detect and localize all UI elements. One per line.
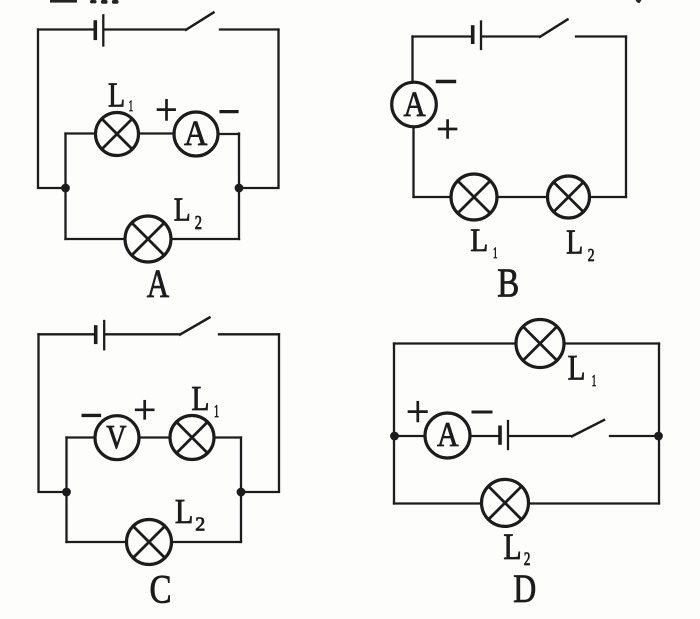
ammeter A1 circle (circuit D) [425,413,470,458]
polarity − of ammeter A1 [221,110,237,113]
wire: C top-left segment [39,333,95,335]
battery positive plate (circuit C) [103,321,105,349]
svg-text:L: L [568,347,586,387]
wire: B battery to switch [482,35,540,37]
svg-text:1: 1 [214,401,219,421]
wire: D node to ammeter [394,435,425,437]
wire: C battery to switch [105,333,180,335]
svg-text:L: L [566,224,583,262]
node junction left (circuit C) [62,488,71,497]
lamp L1 (circuit D) [516,320,564,368]
svg-text:A: A [404,84,427,124]
battery negative plate (circuit D) [498,427,502,443]
battery negative plate (circuit B) [471,27,475,42]
svg-text:L: L [175,492,194,531]
wire: B top-left segment [413,35,472,37]
node junction right (circuit C) [237,488,246,497]
wire: C inner left vertical [65,438,67,543]
wire: C lamp L2 to inner right vertical [172,541,242,543]
wire: D bottom branch left [394,502,482,504]
node junction right (circuit A) [235,184,244,193]
wire: A node to lamp L2 [66,238,126,240]
switch S (circuit B) [540,20,568,37]
wire: D right vertical [658,344,660,504]
ammeter A1 circle (circuit A) [174,112,218,156]
lamp L2 (circuit D) [482,479,529,526]
switch S (circuit A) [186,13,214,30]
svg-text:2: 2 [195,514,205,536]
svg-text:L: L [191,379,209,418]
svg-text:V: V [106,419,127,456]
wire: A inner right vertical [238,134,240,240]
wire: B switch to top-right corner [576,35,626,37]
switch S (circuit D) [572,420,604,436]
wire: A top-left segment [38,28,94,30]
wire: C inner right vertical [240,438,242,543]
lamp L2 (circuit A) [125,216,171,262]
svg-text:A: A [184,113,207,153]
svg-text:D: D [513,566,536,611]
wire: A right outer vertical down to node [239,30,279,189]
svg-text:L: L [470,223,488,259]
lamp L2 (circuit B) [548,176,590,218]
wire: C lamp L1 to inner right vertical [214,436,241,438]
polarity − of ammeter (circuit B) [438,80,455,83]
cropped text fragment (top-right parenthesis tip) [636,0,642,3]
wire: C node to lamp L2 [67,541,127,543]
node junction left (circuit A) [61,184,70,193]
wire: A lamp L2 to inner right vertical [171,238,239,240]
switch S (circuit C) [180,318,210,335]
wire: B between lamps [497,196,548,198]
wire: A switch to top-right corner [220,28,279,30]
wire: C switch to top-right corner [219,333,279,335]
wire: B left vertical lower [412,127,414,198]
svg-text:A: A [147,261,169,306]
wire: A inner left vertical [64,134,66,240]
wire: D top branch right [564,342,659,344]
polarity − of voltmeter V1 [83,414,99,417]
polarity + of ammeter (circuit D) [409,402,426,421]
svg-text:L: L [108,76,125,115]
voltmeter V1 circle (circuit C) [95,416,139,460]
wire: C right outer vertical down to node [241,334,279,492]
wire: B bottom-left segment [414,196,452,198]
battery positive plate (circuit B) [480,22,482,50]
wire: D switch to right node [610,435,659,437]
wire: A ammeter to inner right vertical [218,133,239,135]
wire: D top branch left [394,342,516,344]
lamp L1 (circuit B) [451,174,497,220]
lamp L1 (circuit A) [96,113,139,156]
wire: B left vertical upper [411,37,413,83]
polarity + of ammeter A1 [158,100,175,119]
node junction left (circuit D) [390,432,399,441]
wire: A left outer vertical down to node [38,30,66,189]
battery positive plate (circuit D) [507,421,509,449]
polarity − of ammeter (circuit D) [473,411,491,414]
svg-text:L: L [503,526,521,567]
ammeter A1 circle (circuit B) [392,82,437,127]
wire: D bottom branch right [529,502,660,504]
wire: A node to lamp L1 [66,132,96,134]
battery negative plate (circuit C) [94,327,98,342]
wire: D ammeter to battery [470,435,499,437]
svg-text:C: C [150,567,172,612]
svg-text:L: L [174,192,191,229]
lamp L2 (circuit C) [127,520,172,565]
svg-text:A: A [437,415,459,454]
polarity + of voltmeter V1 [136,401,153,418]
wire: A battery to switch [105,28,187,30]
svg-text:1: 1 [129,98,134,115]
battery positive plate (circuit A) [102,15,104,45]
polarity + of ammeter (circuit B) [439,121,456,138]
node junction right (circuit D) [654,432,663,441]
battery negative plate (circuit A) [94,22,98,38]
wire: A lamp L1 to ammeter [139,132,175,134]
lamp L1 (circuit C) [170,416,214,460]
wire: D left vertical [393,344,395,504]
cropped text fragment (top-left character bottoms) [50,0,119,4]
wire: C node to voltmeter [67,436,96,438]
svg-text:2: 2 [588,245,595,265]
wire: D battery to switch [509,435,572,437]
svg-text:2: 2 [195,213,202,234]
svg-text:B: B [497,260,519,306]
wire: B lamp L2 to right corner [590,196,627,198]
wire: C left outer vertical down to node [39,334,67,492]
wire: C voltmeter to lamp L1 [139,436,170,438]
wire: B right vertical [625,37,627,198]
svg-text:1: 1 [592,371,597,390]
